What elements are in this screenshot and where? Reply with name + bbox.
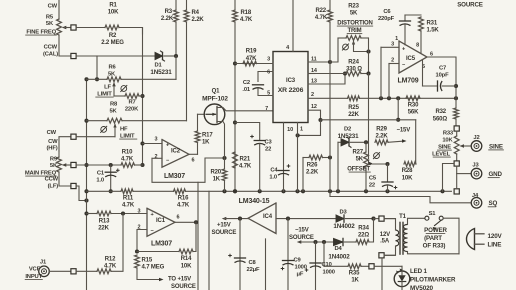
svg-text:CW: CW (48, 4, 58, 10)
svg-text:LM307: LM307 (151, 241, 172, 248)
svg-text:R14: R14 (181, 256, 192, 262)
svg-text:R28: R28 (402, 168, 413, 174)
svg-text:LEVEL: LEVEL (432, 152, 451, 158)
svg-text:R31: R31 (427, 21, 438, 27)
svg-text:MPF-102: MPF-102 (202, 96, 228, 103)
svg-text:C4: C4 (270, 168, 278, 174)
svg-text:R34: R34 (358, 226, 369, 232)
svg-text:(LF): (LF) (48, 184, 59, 190)
svg-text:R35: R35 (349, 271, 360, 277)
svg-text:2.2 MEG: 2.2 MEG (101, 40, 124, 46)
svg-text:4.7K: 4.7K (239, 164, 252, 170)
svg-text:12V: 12V (380, 232, 390, 238)
svg-text:22K: 22K (98, 226, 109, 232)
svg-text:R9: R9 (50, 157, 58, 163)
svg-text:1.0: 1.0 (269, 175, 277, 181)
svg-text:XR 2206: XR 2206 (278, 87, 304, 94)
svg-text:C8: C8 (249, 260, 257, 266)
svg-text:7: 7 (265, 106, 268, 112)
svg-text:R27: R27 (352, 150, 363, 156)
svg-text:C9: C9 (294, 258, 302, 264)
svg-text:C6: C6 (383, 9, 391, 15)
svg-text:(CAL): (CAL) (43, 52, 58, 58)
svg-text:SQ: SQ (489, 200, 498, 207)
svg-text:C1: C1 (97, 171, 105, 177)
svg-text:3: 3 (267, 57, 270, 63)
svg-text:D3: D3 (339, 210, 347, 216)
svg-text:R33: R33 (443, 131, 454, 137)
svg-text:4.7 MEG: 4.7 MEG (142, 265, 165, 271)
svg-text:R15: R15 (142, 258, 153, 264)
svg-text:INPUT: INPUT (25, 274, 42, 280)
svg-text:10pF: 10pF (436, 73, 450, 79)
svg-text:10K: 10K (402, 176, 413, 182)
svg-text:IC1: IC1 (156, 218, 166, 224)
svg-text:12: 12 (311, 104, 317, 110)
svg-text:SOURCE: SOURCE (289, 235, 314, 241)
svg-text:μF: μF (297, 272, 304, 278)
svg-text:R25: R25 (348, 105, 359, 111)
svg-text:4.7K: 4.7K (121, 157, 134, 163)
svg-text:J3: J3 (472, 163, 479, 169)
svg-text:5K: 5K (46, 21, 54, 27)
svg-text:1K: 1K (213, 177, 221, 183)
svg-text:MV5020: MV5020 (410, 285, 433, 290)
svg-text:CW: CW (47, 130, 57, 136)
svg-text:2.2K: 2.2K (161, 16, 174, 22)
svg-text:220pF: 220pF (378, 16, 395, 22)
svg-text:SINE: SINE (438, 145, 451, 151)
svg-text:1.0: 1.0 (96, 178, 104, 184)
svg-text:LM709: LM709 (397, 77, 418, 84)
svg-text:R26: R26 (307, 163, 318, 169)
svg-text:6: 6 (192, 157, 195, 163)
svg-text:2: 2 (311, 92, 314, 98)
svg-text:R24: R24 (348, 60, 359, 66)
svg-text:LM307: LM307 (164, 173, 185, 180)
svg-text:R13: R13 (99, 219, 110, 225)
svg-text:1: 1 (300, 127, 303, 133)
svg-text:1000: 1000 (323, 270, 335, 276)
svg-text:1N4002: 1N4002 (328, 254, 350, 261)
svg-text:22: 22 (369, 183, 375, 189)
svg-text:+15V: +15V (217, 223, 231, 229)
svg-text:5K: 5K (108, 72, 116, 78)
svg-text:HF: HF (120, 127, 128, 133)
svg-text:C10: C10 (322, 262, 332, 268)
svg-text:330 Ω: 330 Ω (346, 67, 362, 73)
svg-text:2.2K: 2.2K (375, 134, 388, 140)
svg-text:4.7K: 4.7K (315, 15, 328, 21)
svg-text:D1: D1 (154, 63, 162, 69)
svg-text:5K: 5K (350, 11, 358, 17)
svg-text:D2: D2 (344, 127, 351, 133)
svg-text:VCF: VCF (29, 267, 41, 273)
svg-text:DISTORTION: DISTORTION (337, 21, 372, 27)
svg-text:R16: R16 (178, 196, 189, 202)
svg-text:47K: 47K (246, 56, 257, 62)
svg-text:LIMIT: LIMIT (97, 92, 112, 98)
svg-text:R2: R2 (109, 33, 117, 39)
svg-text:Q1: Q1 (212, 88, 221, 94)
svg-text:22: 22 (265, 147, 271, 153)
svg-text:2.2K: 2.2K (306, 170, 319, 176)
svg-text:SOURCE: SOURCE (212, 230, 237, 236)
svg-text:SOURCE: SOURCE (457, 2, 483, 9)
svg-text:R23: R23 (348, 4, 359, 10)
svg-text:56K: 56K (408, 110, 419, 116)
svg-text:10: 10 (287, 127, 293, 133)
svg-text:.5A: .5A (380, 238, 390, 244)
svg-text:T1: T1 (399, 214, 407, 220)
svg-text:5K: 5K (50, 163, 58, 169)
svg-text:560Ω: 560Ω (433, 117, 448, 123)
svg-text:R7: R7 (128, 100, 135, 106)
svg-text:FINE FREQ: FINE FREQ (26, 30, 56, 36)
svg-text:1K: 1K (351, 278, 359, 284)
svg-text:IC3: IC3 (286, 78, 296, 84)
svg-text:2: 2 (391, 58, 394, 64)
svg-text:TO +15V: TO +15V (168, 277, 191, 283)
svg-text:(PART: (PART (424, 235, 442, 242)
svg-text:S1: S1 (429, 211, 437, 217)
svg-text:C3: C3 (265, 140, 273, 146)
svg-text:IC2: IC2 (171, 149, 181, 155)
svg-text:OFFSET: OFFSET (347, 167, 370, 173)
svg-text:.01: .01 (242, 87, 251, 93)
svg-text:R6: R6 (108, 65, 116, 71)
svg-text:5: 5 (267, 91, 270, 97)
svg-text:4.7K: 4.7K (122, 203, 135, 209)
svg-text:1: 1 (395, 36, 398, 42)
svg-text:R20: R20 (210, 170, 221, 176)
svg-text:−15V: −15V (397, 128, 411, 134)
svg-text:TRIM: TRIM (347, 28, 361, 34)
svg-text:OF R33): OF R33) (423, 243, 446, 250)
svg-text:4.7K: 4.7K (104, 264, 117, 270)
svg-text:C2: C2 (243, 80, 250, 86)
svg-text:R18: R18 (241, 10, 252, 16)
svg-text:D4: D4 (334, 246, 342, 252)
svg-text:SINE: SINE (489, 143, 503, 150)
svg-text:CCW: CCW (44, 45, 58, 51)
svg-text:10K: 10K (108, 10, 119, 16)
svg-text:LF: LF (104, 85, 111, 91)
svg-text:IC4: IC4 (263, 214, 273, 220)
svg-text:220K: 220K (125, 107, 139, 113)
svg-text:SOURCE: SOURCE (171, 284, 196, 290)
svg-text:R3: R3 (165, 9, 173, 15)
svg-text:CW: CW (48, 139, 58, 145)
svg-text:R22: R22 (315, 8, 326, 14)
svg-text:1N5231: 1N5231 (150, 69, 172, 76)
svg-text:1N5231: 1N5231 (338, 133, 359, 140)
svg-text:LM340-15: LM340-15 (239, 198, 270, 205)
svg-text:120V: 120V (488, 233, 503, 240)
svg-text:11: 11 (311, 57, 317, 63)
svg-text:GND: GND (489, 171, 503, 178)
svg-text:3: 3 (391, 41, 394, 47)
svg-text:2.2K: 2.2K (192, 17, 205, 23)
svg-text:R29: R29 (376, 127, 387, 133)
svg-text:1N4002: 1N4002 (333, 223, 355, 230)
svg-text:R5: R5 (46, 15, 54, 21)
svg-text:−15V: −15V (295, 228, 309, 234)
svg-text:1K: 1K (202, 140, 210, 146)
svg-text:R4: R4 (192, 10, 200, 16)
svg-text:22Ω: 22Ω (358, 233, 369, 239)
svg-text:LED 1: LED 1 (410, 268, 427, 275)
svg-text:R32: R32 (435, 109, 446, 115)
svg-text:(HF): (HF) (47, 146, 58, 152)
svg-text:6: 6 (267, 70, 270, 76)
svg-text:1.5K: 1.5K (427, 28, 440, 34)
svg-text:R19: R19 (246, 49, 257, 55)
svg-text:IC5: IC5 (406, 56, 416, 62)
svg-text:3: 3 (138, 209, 141, 215)
svg-text:LIMIT: LIMIT (120, 134, 135, 140)
svg-text:CCW: CCW (45, 177, 59, 183)
svg-text:4.7K: 4.7K (177, 203, 190, 209)
svg-text:LINE: LINE (488, 242, 502, 249)
svg-text:5K: 5K (109, 109, 117, 115)
svg-text:6: 6 (177, 215, 180, 221)
svg-text:10K: 10K (442, 138, 453, 144)
svg-text:MAIN FREQ: MAIN FREQ (25, 171, 57, 177)
svg-text:J1: J1 (40, 260, 47, 266)
svg-text:C7: C7 (439, 66, 446, 72)
svg-text:3: 3 (155, 137, 158, 143)
svg-text:22μF: 22μF (247, 267, 261, 273)
svg-text:J2: J2 (473, 135, 479, 141)
svg-text:R17: R17 (202, 133, 213, 139)
svg-text:22K: 22K (348, 112, 359, 118)
svg-text:R30: R30 (408, 103, 419, 109)
svg-text:R21: R21 (240, 157, 251, 163)
svg-text:8: 8 (416, 43, 419, 49)
svg-text:5K: 5K (356, 157, 364, 163)
svg-text:4.7K: 4.7K (240, 17, 253, 23)
svg-text:R11: R11 (123, 196, 134, 202)
svg-text:13: 13 (311, 79, 317, 85)
svg-text:2: 2 (155, 154, 158, 160)
svg-text:POWER: POWER (424, 227, 447, 234)
svg-text:R8: R8 (110, 102, 118, 108)
svg-text:10K: 10K (181, 264, 192, 270)
svg-text:R1: R1 (109, 3, 117, 9)
svg-text:PILOT/MARKER: PILOT/MARKER (410, 277, 456, 284)
svg-text:R12: R12 (105, 257, 116, 263)
svg-text:C5: C5 (369, 176, 377, 182)
svg-text:J4: J4 (472, 193, 479, 199)
svg-text:R10: R10 (122, 150, 133, 156)
